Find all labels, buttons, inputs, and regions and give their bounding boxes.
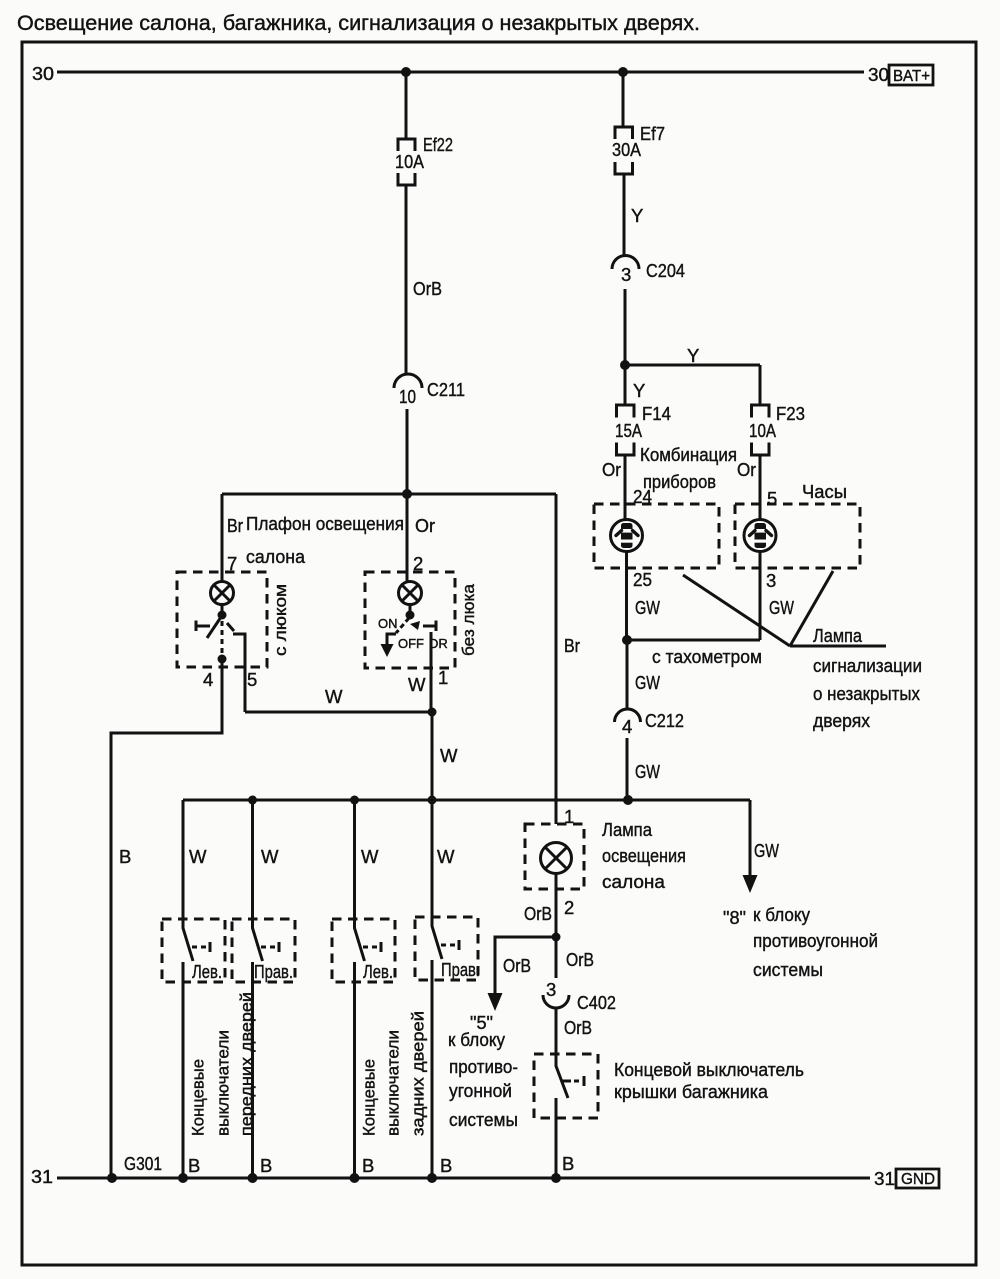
svg-text:Br: Br — [564, 635, 580, 656]
svg-text:B: B — [562, 1153, 574, 1174]
svg-text:крышки багажника: крышки багажника — [614, 1081, 769, 1102]
wire Y to C204 — [624, 174, 643, 256]
svg-text:GW: GW — [769, 597, 794, 618]
svg-text:Комбинация: Комбинация — [640, 444, 737, 465]
svg-text:"8": "8" — [723, 907, 746, 928]
door-ajar warning lamp (clock) — [744, 520, 776, 552]
svg-text:Лампа: Лампа — [813, 625, 863, 646]
svg-text:30: 30 — [868, 64, 889, 85]
wire 30-rail to fuse Ef22 — [405, 72, 408, 138]
svg-text:B: B — [440, 1155, 452, 1176]
svg-text:выключатели: выключатели — [385, 1030, 403, 1136]
node rail x432 — [427, 1173, 437, 1183]
door-ajar warning lamp (cluster) — [611, 520, 643, 552]
svg-text:4: 4 — [203, 669, 213, 690]
svg-text:3: 3 — [766, 570, 776, 591]
svg-text:передних дверей: передних дверей — [238, 992, 256, 1136]
svg-text:GW: GW — [754, 840, 779, 861]
node junction x432 y712 — [428, 708, 437, 717]
lamp L2 — [399, 582, 422, 605]
svg-text:30: 30 — [32, 63, 54, 84]
door switch rear-left (Лев.) — [332, 919, 395, 1178]
svg-text:к блоку: к блоку — [448, 1029, 506, 1050]
svg-text:3: 3 — [546, 979, 556, 1000]
svg-text:OrB: OrB — [524, 903, 552, 924]
node junction x407 y494 — [402, 489, 412, 499]
trunk lid switch — [534, 1054, 598, 1178]
wire C211 to node at ceiling-lamp rail — [406, 409, 409, 494]
wire W distribution bus — [183, 799, 750, 802]
svg-text:Концевой выключатель: Концевой выключатель — [614, 1059, 804, 1080]
svg-text:F23: F23 — [776, 403, 805, 424]
svg-text:W: W — [440, 745, 458, 766]
svg-text:противо-: противо- — [449, 1056, 518, 1077]
node rail x183 — [178, 1173, 188, 1183]
wire Br drop to dome lamp (with sunroof) — [222, 494, 243, 582]
door switch rear-right (Прав.) — [415, 917, 480, 1178]
svg-text:B: B — [362, 1155, 374, 1176]
svg-text:3: 3 — [621, 264, 631, 285]
door switch front-left (Лев.) — [162, 919, 225, 1178]
svg-text:OrB: OrB — [503, 955, 531, 976]
svg-text:C211: C211 — [427, 379, 465, 400]
svg-text:угонной: угонной — [449, 1080, 512, 1101]
connector C212 pin 4 — [615, 709, 685, 737]
wire Y to F14 — [625, 365, 645, 405]
svg-text:C212: C212 — [645, 710, 684, 731]
svg-text:к блоку: к блоку — [753, 904, 811, 925]
svg-text:с тахометром: с тахометром — [652, 646, 762, 667]
pin5 link — [233, 634, 245, 712]
svg-text:31: 31 — [874, 1168, 895, 1189]
wire W drop front-left door — [183, 800, 207, 920]
svg-text:Лев.: Лев. — [192, 961, 222, 982]
svg-text:Y: Y — [687, 345, 699, 366]
connector C204 pin 3 — [612, 256, 685, 286]
svg-text:OrB: OrB — [564, 1017, 592, 1038]
node rail x252 — [248, 1173, 258, 1183]
callout lines to warning lamp label — [683, 571, 886, 646]
svg-text:Прав.: Прав. — [441, 959, 480, 980]
svg-text:Ef22: Ef22 — [423, 134, 453, 155]
svg-text:B: B — [119, 846, 131, 867]
wire W pin5 run — [245, 711, 432, 714]
node junction y937 — [552, 933, 561, 942]
fuse Ef22 10A — [395, 134, 453, 185]
connector C211 pin 10 — [394, 374, 465, 407]
svg-text:OrB: OrB — [566, 949, 594, 970]
wire GW to alarm block "8" — [743, 800, 780, 893]
dome lamp unit (with sunroof) — [177, 572, 267, 712]
svg-text:дверях: дверях — [813, 710, 871, 731]
svg-text:F14: F14 — [642, 403, 671, 424]
svg-text:B: B — [260, 1155, 272, 1176]
dashed off path — [221, 621, 224, 654]
wire GW from cluster pin 25 — [627, 552, 661, 641]
svg-text:W: W — [261, 846, 279, 867]
svg-text:4: 4 — [622, 716, 632, 737]
fuse F23 10A — [749, 403, 805, 455]
node x354 — [350, 796, 359, 805]
svg-text:15A: 15A — [615, 420, 643, 441]
svg-text:Лампа: Лампа — [602, 819, 653, 840]
blade — [396, 618, 409, 633]
svg-text:Y: Y — [633, 380, 645, 401]
wire GW tie — [627, 639, 761, 642]
svg-text:10A: 10A — [749, 420, 777, 441]
svg-text:системы: системы — [449, 1109, 518, 1130]
node junction y365 — [620, 360, 630, 370]
door contact — [195, 621, 198, 632]
wire Y to branch node — [624, 289, 627, 365]
switch blade — [207, 617, 221, 638]
wire GW from clock pin 3 — [760, 552, 794, 641]
svg-text:BAT+: BAT+ — [893, 68, 930, 85]
wire W drop rear-left door — [355, 800, 380, 920]
svg-text:GND: GND — [901, 1171, 935, 1188]
svg-text:G301: G301 — [124, 1153, 162, 1174]
tick — [227, 623, 234, 631]
bus 31 GND — [31, 1166, 939, 1189]
connector C402 pin 3 — [543, 979, 616, 1013]
svg-text:Плафон освещения: Плафон освещения — [246, 513, 404, 534]
svg-text:салона: салона — [246, 546, 306, 567]
svg-text:W: W — [437, 846, 455, 867]
node: rail junction x406 — [401, 67, 411, 77]
door switch front-right (Прав.) — [232, 919, 295, 1178]
fuse Ef7 30A — [612, 123, 665, 174]
svg-text:Освещение салона, багажника, с: Освещение салона, багажника, сигнализаци… — [17, 12, 700, 35]
lamp L1 — [211, 582, 234, 605]
svg-text:2: 2 — [564, 897, 574, 918]
svg-text:30A: 30A — [612, 139, 642, 160]
ground G301 — [107, 1153, 162, 1183]
svg-text:C402: C402 — [577, 992, 616, 1013]
svg-text:W: W — [325, 686, 343, 707]
svg-text:GW: GW — [635, 761, 660, 782]
svg-text:OFF: OFF — [398, 636, 424, 651]
svg-text:OrB: OrB — [413, 278, 442, 299]
wire W drop front-right door — [253, 800, 280, 920]
svg-text:W: W — [408, 674, 426, 695]
wire OrB fuse Ef22 to connector C211 — [406, 185, 442, 375]
wire OrB branch to alarm block "5" — [488, 937, 557, 1011]
svg-text:ON: ON — [378, 616, 398, 631]
wire Or to clock lamp — [737, 455, 777, 519]
fuse F14 15A — [615, 403, 671, 455]
svg-text:салона: салона — [602, 871, 666, 892]
wire W from pin4 down-left — [111, 663, 222, 1178]
svg-text:приборов: приборов — [643, 471, 716, 492]
ON ground arrow — [387, 634, 396, 644]
svg-text:сигнализации: сигнализации — [813, 655, 922, 676]
wire Or to cluster lamp — [602, 455, 652, 519]
svg-text:B: B — [188, 1155, 200, 1176]
svg-text:Or: Or — [737, 459, 756, 480]
svg-text:10A: 10A — [395, 151, 425, 172]
svg-text:Концевые: Концевые — [361, 1059, 379, 1136]
svg-text:Часы: Часы — [802, 481, 847, 502]
svg-text:системы: системы — [753, 959, 823, 980]
node x252 — [248, 796, 257, 805]
lamp освещения салона — [525, 824, 584, 889]
wire Or drop to dome lamp (no sunroof) — [407, 494, 435, 582]
svg-text:5: 5 — [247, 669, 257, 690]
wire Y branch to F23 — [625, 345, 760, 405]
wire ceiling lamp feed rail — [222, 493, 556, 496]
node rail x556 — [551, 1173, 561, 1183]
svg-text:Or: Or — [602, 459, 621, 480]
wire pin1 — [430, 632, 433, 712]
svg-text:W: W — [361, 846, 379, 867]
svg-text:10: 10 — [399, 386, 416, 407]
svg-text:25: 25 — [633, 569, 652, 590]
wire W drop rear-right door — [432, 800, 455, 917]
node junction y640 — [622, 635, 632, 645]
svg-text:W: W — [189, 846, 207, 867]
node: rail junction x623 — [618, 67, 628, 77]
svg-text:о незакрытых: о незакрытых — [813, 683, 921, 704]
svg-text:C204: C204 — [646, 260, 685, 281]
svg-text:Y: Y — [631, 205, 643, 226]
wire OrB to trunk switch — [556, 1008, 592, 1054]
wire OrB lamp to C402 — [524, 874, 594, 978]
svg-text:GW: GW — [635, 672, 660, 693]
svg-text:Концевые: Концевые — [190, 1059, 208, 1136]
svg-text:Or: Or — [415, 515, 435, 536]
svg-text:1: 1 — [438, 667, 448, 688]
wire GW C212 to bus — [627, 738, 660, 800]
instrument cluster box — [594, 504, 719, 568]
svg-text:задних дверей: задних дверей — [410, 1011, 428, 1136]
svg-text:без люка: без люка — [460, 583, 478, 656]
svg-text:Ef7: Ef7 — [640, 123, 665, 144]
svg-text:освещения: освещения — [602, 845, 686, 866]
wire W down to bus — [432, 712, 458, 800]
svg-text:Br: Br — [227, 515, 243, 536]
node x432 — [428, 796, 437, 805]
svg-text:выключатели: выключатели — [215, 1030, 233, 1136]
svg-text:с люком: с люком — [272, 584, 290, 656]
svg-text:противоугонной: противоугонной — [753, 930, 878, 951]
svg-text:Прав.: Прав. — [254, 961, 293, 982]
contact DR — [423, 625, 436, 628]
clock box — [735, 504, 860, 568]
wire to fuse Ef7 — [622, 72, 625, 127]
wire Br drop to trunk lamp — [556, 494, 580, 824]
bus 30 BAT+ — [32, 63, 933, 85]
wire GW to C212 — [627, 640, 660, 710]
dome lamp unit (no sunroof) — [365, 572, 455, 712]
svg-text:Лев.: Лев. — [363, 961, 393, 982]
svg-text:5: 5 — [767, 488, 777, 509]
svg-text:31: 31 — [31, 1166, 53, 1187]
svg-text:GW: GW — [635, 597, 660, 618]
node rail x354 — [350, 1173, 360, 1183]
node x628 — [623, 795, 633, 805]
